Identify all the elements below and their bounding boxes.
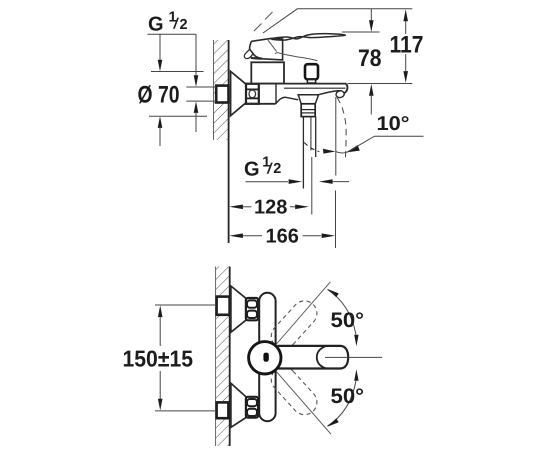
wall face line (bottom view): [229, 267, 231, 447]
dimension 117: [390, 9, 424, 83]
10 deg arc with arrows: [323, 145, 360, 154]
diverter knob: [305, 64, 318, 83]
50 deg phantom handle (lower, dashed): [271, 367, 317, 415]
pivot centre mark: [263, 353, 268, 362]
svg-text:50°: 50°: [331, 385, 365, 408]
escutcheon cone (top view): [231, 71, 246, 115]
handle raised phantom dashes: [254, 12, 273, 31]
50 deg reference line (upper): [277, 282, 331, 344]
wall (hatched section, top view): [214, 40, 229, 140]
connection nut (top view): [246, 84, 259, 104]
spout tip / aerator: [319, 84, 348, 98]
dimension O 70 (escutcheon): [138, 34, 208, 146]
upper escutcheon cone: [231, 286, 246, 332]
svg-text:78: 78: [358, 45, 382, 72]
166 extension line (spout tip): [335, 191, 337, 249]
svg-text:G: G: [244, 159, 260, 181]
wall face line / extension to dimension rows: [228, 40, 230, 243]
dimension G 1/2 (wall union, arrows at square): [186, 34, 216, 132]
50 deg arc (upper): [327, 289, 358, 346]
handle pivot dome: [249, 342, 281, 374]
dimension G 1/2 (hose width): [246, 179, 350, 184]
hose centre / 128 extension line: [311, 157, 313, 215]
spout tilt line 10 deg (dashed): [337, 98, 346, 159]
hose nut (top view): [301, 104, 315, 117]
dimension 150 +/- 15: [123, 305, 194, 410]
G 1/2 wall union square (top view): [216, 86, 228, 103]
svg-text:166: 166: [266, 226, 299, 248]
label G 1/2 (top left): [148, 10, 188, 36]
spout top extension line: [348, 83, 413, 85]
leader from handle to 117 reference: [263, 9, 412, 33]
50 deg reference line (lower): [277, 372, 332, 435]
lower union square: [217, 402, 229, 418]
svg-text:2: 2: [273, 161, 281, 177]
150 extension line (lower): [155, 410, 216, 412]
svg-text:50°: 50°: [331, 309, 365, 332]
svg-text:150±15: 150±15: [123, 346, 194, 372]
lever handle (top view): [244, 34, 345, 61]
150 extension line (upper): [155, 304, 216, 306]
svg-text:128: 128: [254, 197, 287, 219]
cartridge housing (top view): [251, 62, 284, 83]
spout top surface line: [284, 87, 346, 89]
svg-text:10°: 10°: [377, 113, 410, 135]
svg-text:117: 117: [390, 32, 424, 59]
50 deg phantom handle (upper, dashed): [271, 301, 317, 349]
mixer body (top view): [246, 84, 346, 104]
50 deg arc (lower): [327, 369, 358, 426]
dimension 128: [229, 197, 309, 219]
10 deg leader line: [347, 136, 424, 152]
mixer body capsule (front view): [259, 293, 275, 421]
svg-text:G: G: [148, 14, 164, 36]
dimension 78: [358, 9, 382, 115]
spout axis vertical reference (10 deg): [335, 97, 337, 176]
svg-text:2: 2: [180, 17, 188, 33]
lever centreline: [325, 356, 382, 358]
shower elbow (top view): [298, 95, 318, 104]
shower hose (top view): [303, 117, 319, 189]
dimension 166: [229, 226, 335, 248]
upper connection nut: [246, 298, 258, 320]
upper union square: [217, 297, 230, 315]
lower connection nut: [246, 397, 258, 418]
svg-text:Ø 70: Ø 70: [138, 82, 180, 109]
label G 1/2 (hose): [244, 154, 281, 180]
wall (hatched section, bottom view): [216, 267, 230, 447]
handle top reference line (78): [342, 31, 380, 33]
lower escutcheon cone: [231, 383, 246, 427]
lever handle (front view): [278, 346, 349, 369]
G 1/2 label connector line: [148, 33, 197, 35]
